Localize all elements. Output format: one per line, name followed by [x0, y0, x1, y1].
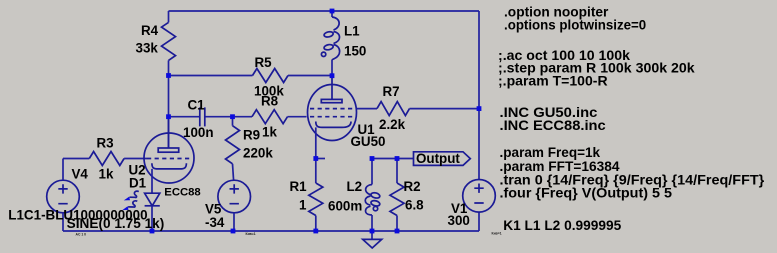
junction L1/R5/U1 anode node: [330, 73, 335, 78]
svg-text:600m: 600m: [328, 198, 362, 213]
svg-text:V4: V4: [72, 167, 89, 182]
wire C1 row: [169, 116, 200, 118]
svg-text:.options plotwinsize=0: .options plotwinsize=0: [504, 17, 646, 32]
resistor R1: [315, 159, 317, 184]
voltage source V5: [218, 180, 251, 213]
voltage source V4: [47, 180, 80, 213]
resistor R3: [89, 152, 124, 166]
inductor L2: [371, 159, 373, 185]
U2 grid: [147, 158, 191, 160]
svg-text:Кив=1: Кив=1: [246, 232, 256, 236]
junction D1 bottom rail: [150, 229, 155, 234]
svg-text:R5: R5: [255, 55, 273, 70]
svg-text:R9: R9: [243, 127, 260, 142]
svg-text:150: 150: [344, 44, 366, 59]
svg-text:.four {Freq} V(Output) 5 5: .four {Freq} V(Output) 5 5: [500, 186, 673, 201]
resistor R9: [232, 117, 234, 126]
svg-text:1k: 1k: [99, 167, 114, 182]
svg-text:Output: Output: [416, 151, 460, 166]
capacitor C1: [199, 107, 201, 126]
svg-text:C1: C1: [188, 98, 206, 113]
svg-text:300: 300: [448, 213, 470, 228]
wire R5 row: [169, 75, 253, 77]
wire top rail: [169, 10, 480, 12]
inductor L1: [331, 11, 333, 17]
svg-text:1k: 1k: [262, 125, 277, 140]
wire bottom rail: [63, 230, 479, 232]
svg-text:R4: R4: [141, 23, 159, 38]
tube U1 GU50: [308, 85, 357, 141]
junction U1 cathode/R1: [313, 156, 318, 161]
junction R1 bottom rail: [313, 229, 318, 234]
diode D1: [151, 169, 153, 193]
junction R2 top: [395, 156, 400, 161]
svg-text:.INC ECC88.inc: .INC ECC88.inc: [500, 118, 607, 133]
ground: [371, 231, 373, 239]
resistor R2: [396, 159, 398, 184]
svg-text:R3: R3: [97, 136, 114, 151]
LED arrows: [130, 191, 139, 197]
wire output row: [372, 158, 414, 160]
svg-text:GU50: GU50: [351, 134, 386, 149]
U2 cathode: [152, 163, 187, 169]
svg-text:SINE(0 1.75 1k): SINE(0 1.75 1k): [67, 216, 165, 231]
svg-text:;.param T=100-R: ;.param T=100-R: [498, 74, 608, 89]
svg-text:D1: D1: [129, 176, 147, 191]
wire U1 cathode lead: [315, 127, 317, 158]
output flag: [414, 152, 471, 166]
svg-text:220k: 220k: [243, 145, 273, 160]
wire U1 screen lead: [357, 108, 377, 110]
junction L1 top rail: [330, 9, 335, 14]
junction R4/R5/U2 anode node: [166, 73, 171, 78]
resistor R8: [252, 110, 288, 124]
svg-text:100n: 100n: [183, 125, 214, 140]
svg-text:6.8: 6.8: [405, 197, 424, 212]
svg-text:.param Freq=1k: .param Freq=1k: [500, 145, 601, 160]
wire cathode stub: [316, 158, 325, 160]
junction C1 left node: [166, 114, 171, 119]
U1 screen grid: [310, 108, 353, 110]
voltage source V1: [463, 180, 496, 213]
resistor R4: [168, 11, 170, 22]
U1 control grid: [310, 116, 353, 118]
svg-text:R7: R7: [383, 84, 400, 99]
svg-text:R2: R2: [404, 179, 421, 194]
wire U2 anode column: [168, 76, 170, 149]
svg-text:R8: R8: [261, 94, 279, 109]
U1 cathode: [316, 122, 351, 128]
svg-text:33k: 33k: [136, 41, 159, 56]
svg-text:1: 1: [299, 197, 307, 212]
wire right rail upper: [478, 11, 480, 179]
junction L2/ground rail: [370, 229, 375, 234]
svg-text:R1: R1: [290, 179, 308, 194]
junction C1/R9/R8 node: [230, 114, 235, 119]
svg-text:Кив=1: Кив=1: [492, 232, 502, 236]
svg-text:ECC88: ECC88: [164, 186, 200, 198]
junction R7 right rail: [477, 106, 482, 111]
wire right rail lower: [478, 212, 480, 231]
svg-text:-34: -34: [205, 215, 225, 230]
tube U2 ECC88: [144, 133, 194, 183]
svg-text:L1: L1: [344, 24, 360, 39]
svg-text:2.2k: 2.2k: [379, 117, 406, 132]
wire V4 to R3: [63, 158, 89, 160]
svg-text:L2: L2: [347, 179, 363, 194]
resistor R7: [377, 102, 410, 116]
junction L2 top / Output node: [370, 156, 375, 161]
junction R2 bottom rail: [395, 229, 400, 234]
svg-text:K1 L1 L2 0.999995: K1 L1 L2 0.999995: [503, 217, 621, 233]
resistor R5: [253, 69, 289, 83]
junction V5 bottom rail: [231, 229, 236, 234]
svg-text:AC 1 0: AC 1 0: [76, 232, 87, 236]
